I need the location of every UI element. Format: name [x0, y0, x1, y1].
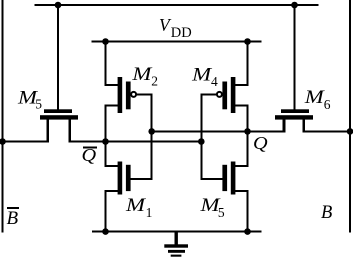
svg-text:1: 1 [146, 205, 153, 220]
label M2 [131, 65, 158, 89]
wire: M5 source/drain stubs [48, 119, 70, 143]
wire: M1 source to ground rail [106, 190, 119, 233]
junction: ground rail / M1 source [102, 228, 109, 235]
transistor M5 (NMOS access, left) [40, 109, 78, 119]
label M6 [304, 88, 331, 112]
wire: node Q-bar horizontal line [2, 141, 203, 143]
junction: node Q / left gate tie [148, 128, 155, 135]
wire: node Q horizontal line [152, 130, 351, 132]
junction: bitline B / M6 [347, 128, 353, 135]
wire: M3 source to ground rail [234, 190, 247, 233]
junction: VDD / M4 source [244, 38, 251, 45]
svg-text:M: M [191, 65, 213, 85]
node Q label [253, 133, 268, 153]
wire: VDD to M2 source [105, 42, 119, 87]
svg-text:2: 2 [151, 74, 158, 89]
junction: node Q / right inverter output [244, 128, 251, 135]
wire: VDD to M4 source [234, 42, 248, 87]
junction: bitline B-bar / M5 [0, 138, 6, 145]
transistor M3 (NMOS, right inverter, labelled M5) [222, 162, 235, 195]
wire: M2 drain to node Q-bar [106, 105, 119, 143]
svg-text:6: 6 [324, 97, 331, 112]
wire: M2 gate lead [136, 93, 153, 95]
svg-text:M: M [125, 196, 147, 216]
wire: M3 gate lead [200, 178, 223, 180]
wire: Q to M3 drain [234, 130, 248, 167]
svg-text:DD: DD [171, 25, 192, 41]
svg-text:Q: Q [253, 133, 268, 153]
label B-bar (left bitline) [7, 208, 19, 229]
wire: word line (top horizontal) [34, 4, 318, 6]
junction: node Q-bar / right gate tie [198, 138, 205, 145]
junction: ground rail / M3 source [244, 228, 251, 235]
svg-text:4: 4 [211, 74, 218, 89]
wire: gate tie vertical right (M4/M3 gates to Q-bar) [200, 93, 202, 180]
svg-text:5: 5 [35, 97, 42, 112]
label M1 [125, 196, 153, 220]
junction: word line / M6 gate [291, 2, 298, 9]
transistor M1 (NMOS, left inverter) [118, 162, 131, 195]
svg-text:B: B [321, 203, 332, 223]
transistor M6 (NMOS access, right) [275, 109, 313, 119]
wire: bitline B (right vertical) [349, 0, 351, 233]
transistor M2 (PMOS, left inverter) [118, 77, 137, 113]
label M4 [191, 65, 218, 89]
node Q-bar label [82, 145, 97, 165]
svg-text:5: 5 [218, 205, 225, 220]
label M5 (bottom-right transistor) [199, 196, 225, 220]
label M5 (top-left access transistor) [17, 88, 42, 111]
wire: word line to M6 gate [294, 5, 296, 110]
junction: word line / M5 gate [55, 2, 62, 9]
junction: node Q-bar / left inverter output [102, 138, 109, 145]
svg-text:M: M [304, 88, 326, 108]
wire: ground rail (bottom horizontal) [92, 231, 262, 233]
wire: gate tie vertical left (M2/M1 gates to Q) [151, 93, 153, 180]
wire: VDD rail [91, 41, 261, 43]
label B (right bitline) [321, 203, 332, 223]
ground symbol [164, 231, 188, 257]
junction: VDD / M2 source [102, 38, 109, 45]
wire: M4 drain to node Q [234, 105, 247, 133]
svg-text:M: M [131, 65, 153, 85]
label VDD (supply net) [159, 15, 192, 41]
wire: M6 source/drain stubs [284, 119, 304, 132]
wire: word line to M5 gate [57, 5, 59, 110]
svg-text:B: B [7, 208, 19, 229]
transistor M4 (PMOS, right inverter) [217, 77, 236, 113]
wire: M1 gate lead [130, 178, 153, 180]
wire: M4 gate lead [200, 93, 217, 95]
wire: Q-bar to M1 drain [105, 141, 119, 168]
wire: bitline B-bar (left vertical) [2, 0, 4, 233]
